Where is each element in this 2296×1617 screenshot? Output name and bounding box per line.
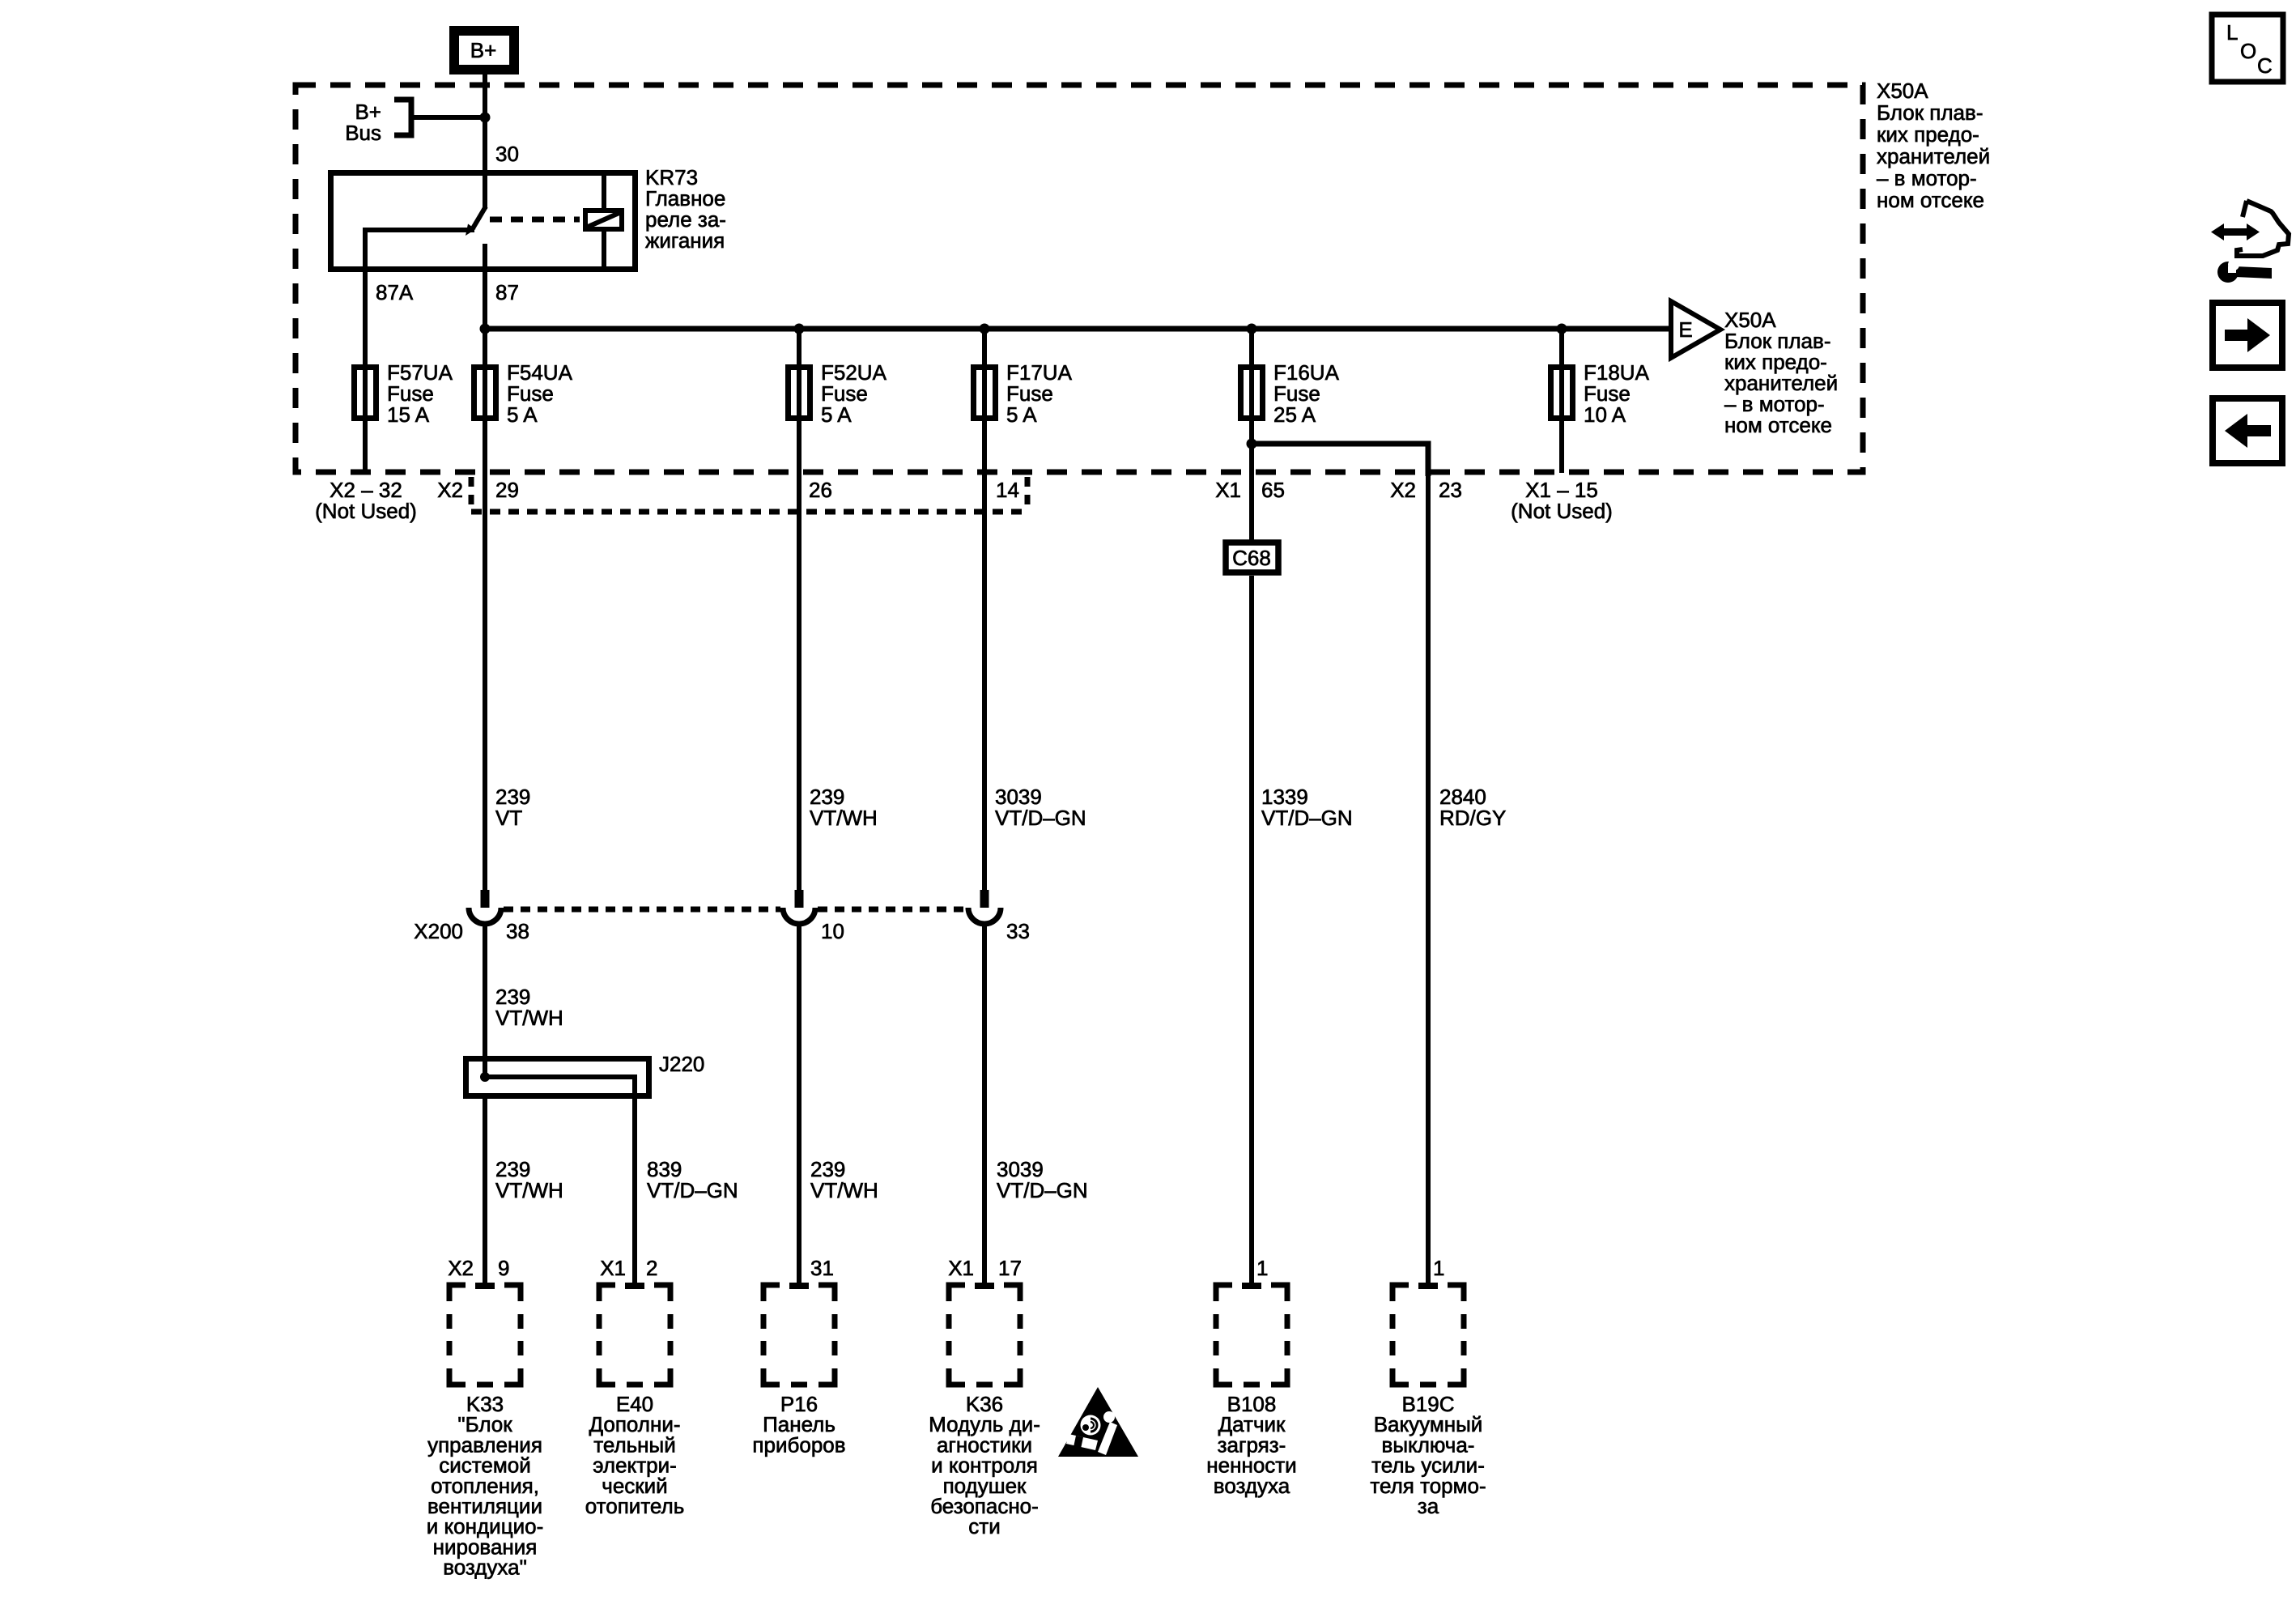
- svg-text:65: 65: [1261, 478, 1285, 502]
- fuse F17UA: [974, 360, 1073, 427]
- svg-text:X1: X1: [600, 1256, 626, 1280]
- svg-text:5 A: 5 A: [1006, 402, 1037, 427]
- pin label X2 9 (K33): [448, 1256, 509, 1280]
- wire B19C column down: [1426, 442, 1431, 1286]
- connector X200 dashed row line: [504, 907, 966, 913]
- svg-text:C: C: [2257, 53, 2273, 78]
- label X1 - 15 (Not Used): [1511, 478, 1613, 523]
- wire bus from pin 87 to E reference: [485, 326, 1671, 332]
- svg-text:– в мотор-: – в мотор-: [1877, 166, 1977, 190]
- svg-text:VT/WH: VT/WH: [495, 1006, 563, 1030]
- svg-text:VT/D–GN: VT/D–GN: [995, 806, 1086, 830]
- wire label 239 VT/WH (col 3): [810, 785, 878, 830]
- wire label 1339 VT/D-GN: [1261, 785, 1353, 830]
- svg-text:RD/GY: RD/GY: [1439, 806, 1506, 830]
- wire X200-10 down to P16: [797, 921, 801, 1286]
- svg-text:38: 38: [506, 919, 529, 943]
- connector X200 pin 38: [469, 890, 501, 924]
- svg-text:2: 2: [646, 1256, 657, 1280]
- pin label X2 23: [1390, 478, 1462, 502]
- svg-text:(Not Used): (Not Used): [315, 499, 417, 523]
- svg-text:ном отсеке: ном отсеке: [1877, 188, 1984, 212]
- svg-text:(Not Used): (Not Used): [1511, 499, 1613, 523]
- svg-text:31: 31: [810, 1256, 834, 1280]
- svg-text:C68: C68: [1232, 546, 1271, 570]
- wire relay contact 87A path: [365, 230, 474, 272]
- wire relay pin 87 down: [483, 244, 487, 329]
- svg-text:K36Модуль ди-агностикии контро: K36Модуль ди-агностикии контроляподушекб…: [929, 1392, 1040, 1538]
- node junction F54UA: [480, 324, 491, 334]
- icon wrench: [2217, 259, 2272, 283]
- fuse F54UA: [474, 360, 573, 427]
- label X2 - 32 (Not Used): [315, 478, 417, 523]
- svg-text:17: 17: [998, 1256, 1022, 1280]
- wire X200-38 down to J220: [483, 921, 487, 1077]
- svg-text:5 A: 5 A: [507, 402, 538, 427]
- connector entry bar B19C: [1418, 1283, 1438, 1289]
- svg-text:Блок плав-: Блок плав-: [1877, 100, 1983, 125]
- wire F17UA column down: [982, 329, 987, 891]
- icon double arrow: [2211, 223, 2260, 240]
- pin label X1 2 (E40): [600, 1256, 657, 1280]
- wire label 839 VT/D-GN (E40 column): [647, 1157, 738, 1202]
- relay coil KR73: [585, 172, 622, 270]
- icon vehicle body outline: [2237, 201, 2289, 256]
- svg-text:30: 30: [495, 142, 519, 166]
- pin label X1 65: [1215, 478, 1285, 502]
- component B19C dashed box: [1392, 1285, 1464, 1385]
- component B108 dashed box: [1216, 1285, 1287, 1385]
- svg-text:29: 29: [495, 478, 519, 502]
- svg-text:E: E: [1678, 317, 1692, 342]
- wire label 239 VT: [495, 785, 530, 830]
- wire K33 column below J220: [483, 1096, 487, 1286]
- svg-text:87: 87: [495, 280, 519, 304]
- svg-text:10: 10: [821, 919, 844, 943]
- svg-text:L: L: [2226, 20, 2238, 45]
- svg-text:Bus: Bus: [345, 121, 381, 145]
- pin label X1 17 (K36): [948, 1256, 1022, 1280]
- svg-text:25 A: 25 A: [1273, 402, 1316, 427]
- component K33 dashed box: [449, 1285, 521, 1385]
- power symbol B+: [454, 31, 514, 70]
- label X50A fuse block (at E arrow): [1724, 308, 1838, 437]
- connector C68: [1226, 543, 1278, 572]
- svg-text:J220: J220: [659, 1052, 704, 1076]
- wire F16UA column down: [1249, 329, 1254, 543]
- wire F54UA column down: [483, 329, 487, 891]
- wire label 239 VT/WH (below X200): [495, 985, 563, 1030]
- svg-text:X200: X200: [414, 919, 463, 943]
- node B+ bus junction: [480, 113, 491, 123]
- svg-text:33: 33: [1006, 919, 1030, 943]
- svg-text:VT/WH: VT/WH: [810, 1178, 878, 1202]
- connector entry bar K36: [975, 1283, 994, 1289]
- reference triangle E to X50A: [1671, 301, 1720, 358]
- icon arrow right box: [2213, 303, 2282, 368]
- wire branch F16UA to B19C column: [1252, 444, 1428, 476]
- component P16 dashed box: [763, 1285, 835, 1385]
- connector X200 pin 10: [783, 890, 815, 924]
- svg-text:ном отсеке: ном отсеке: [1724, 413, 1832, 437]
- airbag warning triangle icon: [1058, 1387, 1138, 1457]
- wire label 3039 VT/D-GN (col 4): [995, 785, 1086, 830]
- svg-text:X2: X2: [437, 478, 463, 502]
- svg-text:VT/D–GN: VT/D–GN: [647, 1178, 738, 1202]
- connector entry bar K33: [475, 1283, 495, 1289]
- svg-text:14: 14: [996, 478, 1019, 502]
- wire F57UA branch from 87A: [363, 272, 368, 473]
- fuse F18UA: [1551, 360, 1650, 427]
- svg-text:O: O: [2240, 39, 2256, 63]
- component K36 dashed box: [949, 1285, 1020, 1385]
- connector entry bar B108: [1242, 1283, 1261, 1289]
- svg-text:X1: X1: [948, 1256, 974, 1280]
- svg-text:87A: 87A: [376, 280, 414, 304]
- wire label 239 VT/WH (P16 column): [810, 1157, 878, 1202]
- icon LOC box: [2212, 15, 2283, 82]
- wire B+ Bus to junction: [411, 115, 485, 120]
- connector X2 row of fuse block: [437, 477, 1027, 512]
- svg-text:10 A: 10 A: [1584, 402, 1626, 427]
- svg-text:1: 1: [1256, 1256, 1268, 1280]
- fuse F16UA: [1241, 360, 1340, 427]
- wire label 239 VT/WH (K33 column): [495, 1157, 563, 1202]
- splice J220: [466, 1052, 705, 1286]
- svg-text:15 A: 15 A: [387, 402, 430, 427]
- wire label 3039 VT/D-GN (K36 column): [997, 1157, 1088, 1202]
- svg-text:5 A: 5 A: [821, 402, 852, 427]
- svg-text:хранителей: хранителей: [1877, 144, 1990, 168]
- wire F18UA column down: [1559, 329, 1564, 473]
- svg-text:VT/WH: VT/WH: [810, 806, 878, 830]
- svg-text:жигания: жигания: [645, 228, 725, 253]
- connector entry bar P16: [789, 1283, 809, 1289]
- wire B+ feed down to relay pin 30: [483, 74, 487, 209]
- node junction F17UA: [980, 324, 990, 334]
- connector X200 pin 33: [968, 890, 1001, 924]
- wire X200-33 down to K36: [982, 921, 987, 1286]
- svg-text:B+: B+: [470, 38, 497, 62]
- svg-text:X50A: X50A: [1877, 79, 1928, 103]
- svg-text:X1: X1: [1215, 478, 1241, 502]
- fuse F57UA: [355, 360, 453, 427]
- node junction F52UA: [794, 324, 805, 334]
- svg-text:VT/D–GN: VT/D–GN: [1261, 806, 1353, 830]
- node junction F18UA: [1557, 324, 1567, 334]
- svg-text:X2: X2: [1390, 478, 1416, 502]
- wire label 2840 RD/GY: [1439, 785, 1506, 830]
- svg-text:VT/WH: VT/WH: [495, 1178, 563, 1202]
- svg-text:1: 1: [1433, 1256, 1444, 1280]
- svg-text:26: 26: [809, 478, 832, 502]
- svg-text:23: 23: [1439, 478, 1462, 502]
- svg-text:X2: X2: [448, 1256, 474, 1280]
- wire F52UA column down: [797, 329, 801, 891]
- relay KR73 box: [331, 173, 636, 270]
- label X50A fuse block (top right corner): [1877, 79, 1990, 212]
- relay KR73 label: [645, 165, 726, 253]
- node junction F16UA: [1247, 324, 1257, 334]
- svg-text:VT: VT: [495, 806, 522, 830]
- svg-text:VT/D–GN: VT/D–GN: [997, 1178, 1088, 1202]
- connector entry bar E40: [625, 1283, 644, 1289]
- relay coil dashed actuation link: [490, 217, 580, 223]
- component E40 dashed box: [599, 1285, 670, 1385]
- node junction branch below F16UA: [1247, 439, 1257, 449]
- fuse block X50A dashed outline box: [296, 85, 1863, 472]
- svg-text:9: 9: [498, 1256, 509, 1280]
- svg-text:ких предо-: ких предо-: [1877, 122, 1979, 147]
- wire C68 down to B108: [1249, 576, 1254, 1286]
- fuse F52UA: [789, 360, 887, 427]
- relay switch arm: [466, 206, 486, 236]
- B+ Bus tap bracket and label: [345, 100, 411, 145]
- icon arrow left box: [2213, 398, 2282, 463]
